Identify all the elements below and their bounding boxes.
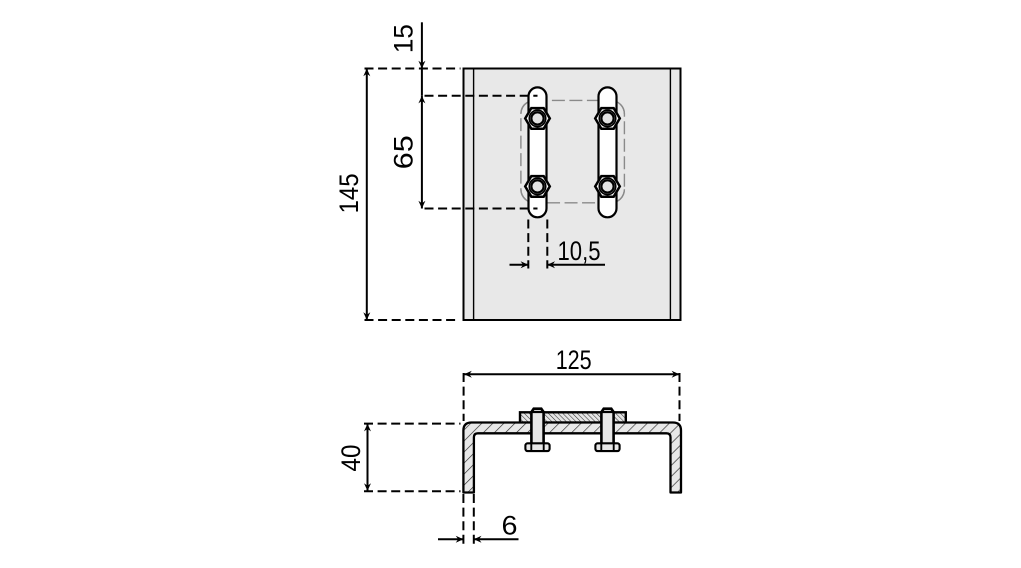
fold line right — [669, 70, 671, 320]
bracket section (hatched channel) — [463, 423, 681, 493]
dim 6 ext right — [473, 494, 475, 545]
svg-text:6: 6 — [502, 511, 518, 541]
dim 6 ext left — [462, 494, 464, 545]
fold line left — [473, 70, 475, 320]
bolt nut — [595, 443, 619, 451]
dim 65 line — [421, 96, 423, 209]
svg-text:40: 40 — [336, 445, 366, 472]
dim 10,5 ext left — [527, 220, 529, 269]
dim 125 ext left — [463, 373, 465, 421]
bolt shank — [531, 409, 543, 444]
svg-text:145: 145 — [334, 173, 364, 213]
dim 125 ext right — [679, 373, 681, 421]
svg-text:65: 65 — [389, 135, 419, 169]
nut top-right — [595, 108, 620, 129]
dim 40 ext top — [364, 423, 461, 425]
clamped bar (section) — [520, 412, 626, 422]
svg-text:10,5: 10,5 — [558, 236, 601, 266]
svg-text:15: 15 — [389, 24, 419, 53]
slot 1 — [529, 87, 547, 217]
nut top-left — [525, 108, 550, 129]
slot 2 — [599, 87, 617, 217]
nut bottom-left — [525, 176, 550, 197]
clamped part outline (hidden, dashed rounded rect) — [521, 100, 625, 202]
ext line slot top center (65) — [425, 95, 538, 97]
bolt nut — [525, 443, 549, 451]
dim 40 line — [367, 424, 369, 491]
dim 125 line — [464, 373, 679, 375]
dim 10,5 arrows — [510, 264, 529, 266]
dim line connector 15/65 — [421, 69, 423, 96]
bolt shank — [601, 409, 613, 444]
svg-text:125: 125 — [556, 345, 592, 375]
plate top view — [464, 69, 681, 321]
dim 40 ext bottom — [364, 490, 461, 492]
dim 15 line — [421, 22, 423, 68]
ext line slot bottom center (65) — [425, 208, 538, 210]
ext line bottom edge (145) — [365, 319, 457, 321]
dim 10,5 ext right — [546, 220, 548, 269]
dim 145 line — [366, 69, 368, 321]
dim 6 arrows — [438, 538, 463, 540]
ext line top edge (145/15) — [365, 68, 461, 70]
nut bottom-right — [595, 176, 620, 197]
clamped part outline corner arcs — [521, 100, 625, 202]
